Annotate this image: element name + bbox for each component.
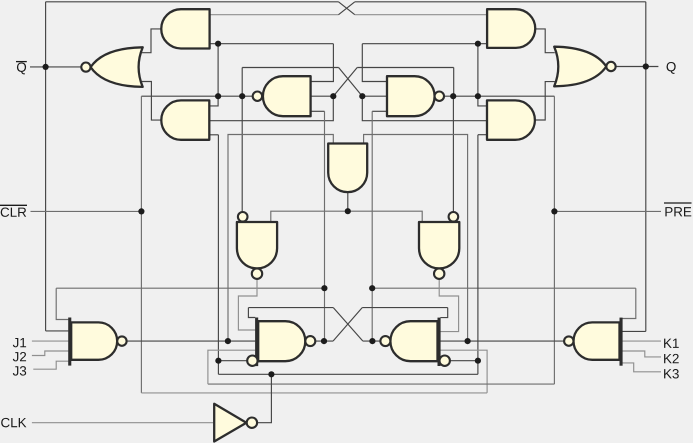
wire [477,135,479,361]
and gate U9 (points down) [328,144,367,193]
wire [339,68,363,97]
wire [32,422,214,424]
wire [208,383,555,385]
node junction [215,93,221,99]
wire [311,110,325,112]
wire [452,96,454,212]
wire [141,95,252,97]
wire [362,307,448,309]
wire [248,308,255,318]
wire [138,82,161,121]
label CLR (active low) [1,207,27,216]
nand gate U11 (points down, inverted input top-right) [419,212,459,279]
wire [32,351,69,356]
wire [339,2,355,15]
wire [478,134,487,136]
wire [623,363,662,372]
wire [217,135,219,361]
wire [440,340,564,342]
label K1 [664,339,679,348]
node junction [475,93,481,99]
wire [623,288,636,318]
nand gate U10 (points down, inverted input top-left) [237,212,277,279]
wire [477,44,479,96]
label K2 [664,354,679,363]
label CLK [1,418,26,427]
and gate U1 (mirrored, feeds NOR Qbar) [161,9,209,48]
wire [364,135,468,342]
wire [56,288,68,319]
wire [30,66,81,68]
node junction [475,358,481,364]
node junction [369,285,375,291]
node junction [321,338,327,344]
node junction [43,64,49,70]
wire [616,66,658,68]
wire [324,111,326,341]
node junction [345,208,351,214]
nand gate U7 (slave latch left, faces left) [253,76,311,116]
wire [209,96,218,106]
wire [477,361,479,375]
wire [238,279,257,330]
wire [645,2,647,332]
wire [248,307,333,309]
wire [333,68,357,97]
wire [141,392,487,394]
node junction [138,208,144,214]
wire [218,373,478,375]
wire [535,29,555,53]
wire [210,43,334,45]
wire [453,68,455,97]
and gate U3 (mirrored, feeds NOR in2) [161,100,209,139]
wire [311,95,334,97]
node junction [450,93,456,99]
wire [362,95,387,97]
wire [127,340,255,342]
wire [31,210,142,212]
label Q [667,62,676,74]
nand gate U13 (master left) [247,318,315,367]
wire [46,330,69,332]
wire [271,211,422,222]
wire [209,134,218,136]
nand gate U12 (J input gate) [68,318,126,366]
wire [210,14,339,16]
wire [217,361,219,375]
wire [623,351,662,357]
node junction [215,41,221,47]
nand gate U15 (K input gate, faces left) [564,318,623,366]
wire [362,43,487,45]
wire [553,96,555,384]
node junction [359,93,365,99]
nand gate U14 (master right, faces left) [380,318,450,366]
and gate U6 (feeds NOR2 in2) [487,100,535,139]
wire [228,135,333,342]
node junction [215,358,221,364]
label J1 [13,338,26,347]
node junction [465,338,471,344]
wire [46,1,339,3]
wire [440,308,447,318]
node junction [268,371,274,377]
wire [339,2,355,15]
wire [439,279,458,332]
wire [209,96,333,121]
label J2 [13,352,26,361]
label J3 [13,366,26,375]
wire [33,361,68,369]
wire [450,360,478,362]
node junction [551,208,557,214]
wire [372,110,387,112]
nor gate U5 (Q output, faces right) [554,47,615,87]
node junction [239,93,245,99]
node junction [643,63,649,69]
wire [371,111,373,341]
label K3 [664,369,679,378]
wire [363,340,381,342]
wire [208,350,255,384]
wire [355,14,487,16]
label PRE (active low) [665,207,691,216]
wire [241,96,243,212]
wire [217,44,219,96]
node junction [321,285,327,291]
nand gate U8 (slave latch right, faces right) [387,76,444,116]
inverter U16 (CLK buffer) [214,404,257,442]
node junction [475,41,481,47]
wire [372,287,636,289]
wire [362,44,387,82]
wire [333,308,362,342]
wire [311,44,334,82]
and gate U4 (feeds NOR Q) [487,9,535,48]
wire [440,350,487,393]
wire [140,96,142,393]
wire [362,96,487,121]
wire [535,82,555,120]
wire [355,1,646,3]
wire [623,330,646,332]
wire [333,308,363,342]
wire [554,210,661,212]
wire [444,95,554,97]
wire [138,29,161,53]
wire [218,360,247,362]
wire [478,96,487,106]
wire [241,68,243,97]
label Qbar [17,62,26,74]
node junction [369,338,375,344]
wire [56,287,324,289]
wire [45,2,47,331]
wire [623,340,662,342]
wire [32,340,69,342]
nor gate U2 (Qbar output, faces left) [81,47,142,87]
node junction [330,93,336,99]
node junction [225,338,231,344]
wire [242,67,338,69]
wire [315,340,333,342]
wire [347,192,349,211]
wire [257,374,271,422]
wire [357,67,454,69]
